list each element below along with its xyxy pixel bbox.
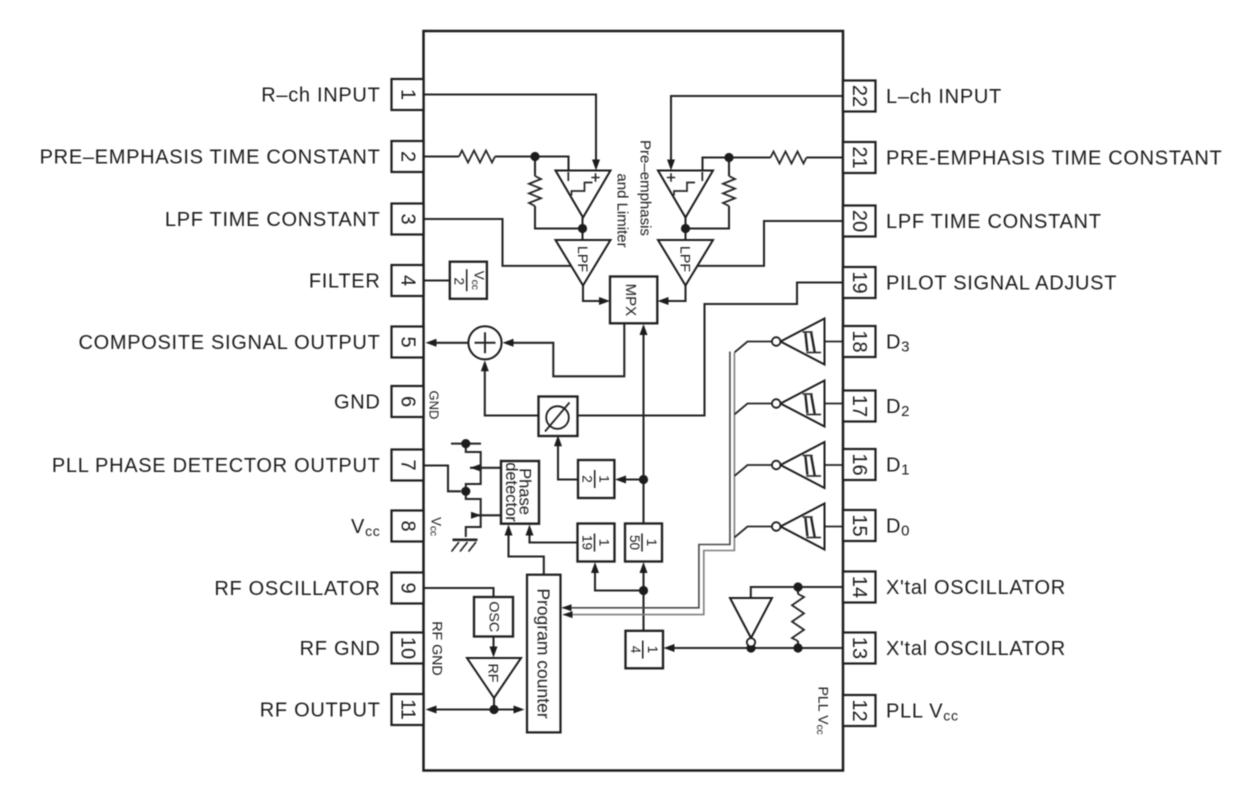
svg-text:R–ch INPUT: R–ch INPUT (261, 85, 380, 107)
svg-text:16: 16 (848, 453, 870, 475)
svg-text:PRE–EMPHASIS TIME CONSTANT: PRE–EMPHASIS TIME CONSTANT (40, 147, 381, 169)
svg-text:COMPOSITE SIGNAL OUTPUT: COMPOSITE SIGNAL OUTPUT (78, 332, 380, 354)
svg-text:2: 2 (452, 277, 467, 285)
svg-text:RF OUTPUT: RF OUTPUT (260, 700, 381, 722)
svg-text:Program counter: Program counter (534, 588, 554, 719)
svg-text:RF: RF (485, 664, 501, 683)
svg-text:and Limiter: and Limiter (614, 173, 631, 247)
svg-text:PRE-EMPHASIS TIME CONSTANT: PRE-EMPHASIS TIME CONSTANT (886, 148, 1222, 170)
svg-text:Pre–emphasis: Pre–emphasis (637, 140, 654, 236)
svg-text:RF GND: RF GND (429, 621, 445, 675)
svg-text:2: 2 (580, 475, 595, 483)
svg-text:4: 4 (397, 275, 419, 286)
svg-text:X'tal OSCILLATOR: X'tal OSCILLATOR (886, 577, 1066, 599)
svg-text:RF OSCILLATOR: RF OSCILLATOR (214, 578, 380, 600)
svg-text:19: 19 (848, 271, 870, 293)
svg-text:1: 1 (597, 475, 612, 483)
svg-text:22: 22 (848, 85, 870, 107)
svg-text:2: 2 (397, 151, 419, 162)
svg-text:11: 11 (397, 699, 419, 720)
svg-text:19: 19 (580, 535, 595, 550)
svg-text:8: 8 (397, 520, 419, 531)
svg-text:PILOT SIGNAL ADJUST: PILOT SIGNAL ADJUST (886, 273, 1117, 295)
svg-text:1: 1 (597, 539, 612, 547)
svg-text:PLL PHASE DETECTOR OUTPUT: PLL PHASE DETECTOR OUTPUT (52, 455, 381, 477)
svg-text:4: 4 (628, 646, 643, 654)
svg-text:1: 1 (397, 89, 419, 100)
svg-text:RF GND: RF GND (300, 638, 381, 660)
svg-text:10: 10 (397, 637, 419, 659)
svg-text:LPF TIME CONSTANT: LPF TIME CONSTANT (165, 209, 381, 231)
svg-text:MPX: MPX (622, 284, 639, 317)
svg-text:15: 15 (848, 514, 870, 536)
svg-text:1: 1 (644, 539, 659, 547)
svg-text:FILTER: FILTER (309, 271, 381, 293)
svg-text:1: 1 (645, 646, 660, 654)
svg-text:OSC: OSC (486, 601, 502, 632)
svg-text:9: 9 (397, 582, 419, 593)
svg-text:17: 17 (848, 395, 870, 417)
svg-text:7: 7 (397, 459, 419, 470)
svg-text:LPF TIME CONSTANT: LPF TIME CONSTANT (886, 211, 1102, 233)
svg-text:13: 13 (848, 637, 870, 659)
svg-text:5: 5 (397, 336, 419, 347)
svg-text:GND: GND (427, 391, 442, 420)
svg-text:14: 14 (848, 576, 870, 598)
svg-text:LPF: LPF (574, 246, 590, 272)
svg-text:L–ch INPUT: L–ch INPUT (886, 86, 1002, 108)
svg-text:20: 20 (848, 210, 870, 232)
svg-text:detector: detector (502, 462, 520, 522)
svg-text:21: 21 (848, 146, 870, 168)
svg-text:12: 12 (848, 699, 870, 721)
svg-text:GND: GND (334, 392, 381, 414)
svg-text:3: 3 (397, 213, 419, 224)
svg-text:X'tal OSCILLATOR: X'tal OSCILLATOR (886, 638, 1066, 660)
svg-text:50: 50 (627, 535, 642, 550)
svg-text:18: 18 (848, 330, 870, 352)
svg-text:6: 6 (397, 396, 419, 407)
svg-text:LPF: LPF (677, 246, 693, 272)
